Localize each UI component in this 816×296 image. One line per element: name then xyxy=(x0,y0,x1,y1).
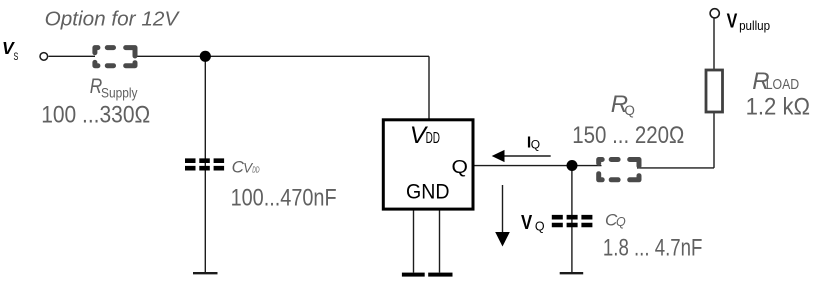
svg-text:1.2 kΩ: 1.2 kΩ xyxy=(746,94,811,121)
svg-text:DD: DD xyxy=(426,130,440,147)
svg-text:100...470nF: 100...470nF xyxy=(231,184,337,211)
svg-text:Supply: Supply xyxy=(101,85,138,101)
svg-text:100 ...330Ω: 100 ...330Ω xyxy=(41,102,150,129)
svg-text:DD: DD xyxy=(252,165,259,175)
svg-text:Q: Q xyxy=(452,157,468,177)
svg-text:pullup: pullup xyxy=(739,18,770,33)
svg-text:Q: Q xyxy=(624,103,635,118)
svg-text:S: S xyxy=(14,51,19,63)
svg-text:LOAD: LOAD xyxy=(766,77,800,93)
svg-text:V: V xyxy=(521,211,533,234)
svg-text:GND: GND xyxy=(406,180,450,204)
svg-text:Q: Q xyxy=(535,219,545,233)
svg-text:Q: Q xyxy=(531,137,540,151)
svg-text:V: V xyxy=(727,10,738,32)
svg-text:Option for 12V: Option for 12V xyxy=(45,9,180,31)
svg-text:1.8 ... 4.7nF: 1.8 ... 4.7nF xyxy=(603,235,703,262)
svg-text:150 ... 220Ω: 150 ... 220Ω xyxy=(572,122,684,149)
svg-text:Q: Q xyxy=(616,215,626,229)
